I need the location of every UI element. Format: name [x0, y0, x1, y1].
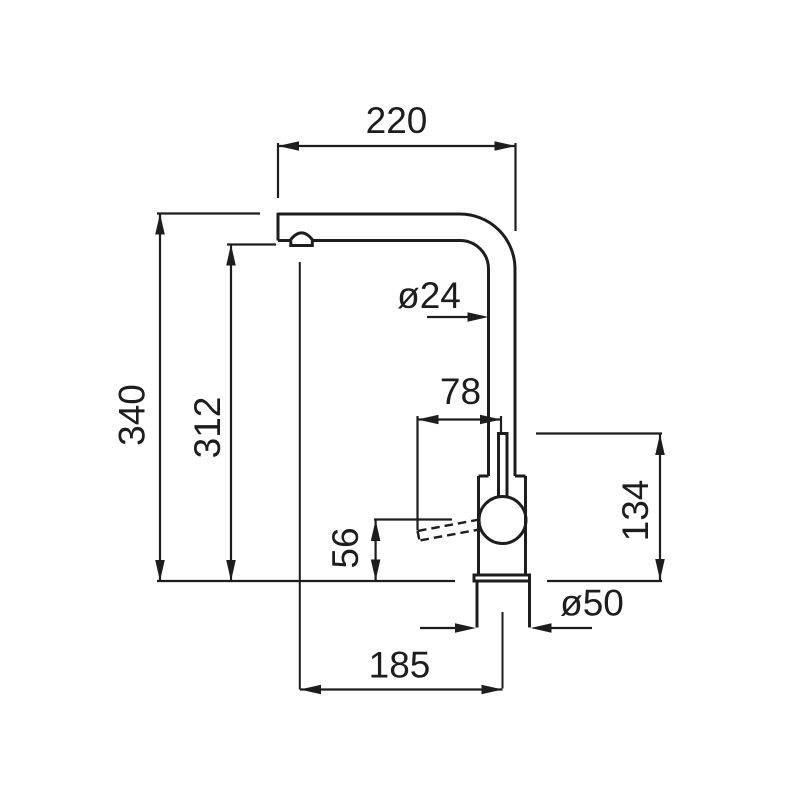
svg-text:134: 134: [615, 480, 656, 542]
svg-text:78: 78: [440, 371, 481, 412]
svg-text:340: 340: [112, 384, 153, 446]
svg-text:185: 185: [369, 645, 431, 686]
svg-text:220: 220: [366, 100, 428, 141]
svg-text:ø50: ø50: [560, 583, 624, 624]
svg-text:ø24: ø24: [397, 275, 461, 316]
svg-text:312: 312: [187, 397, 228, 459]
svg-text:56: 56: [325, 527, 366, 568]
